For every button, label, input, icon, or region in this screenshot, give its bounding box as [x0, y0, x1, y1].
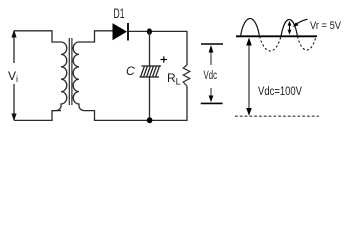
svg-text:Vdc=100V: Vdc=100V	[258, 86, 302, 98]
Vdc down arrow	[210, 88, 212, 99]
sine valley 1 dashed	[260, 36, 282, 51]
node junction bottom	[147, 117, 153, 123]
transformer core	[69, 38, 72, 105]
source Vi left rail with arrows	[13, 31, 15, 120]
resistor RL vertical leads	[186, 31, 188, 65]
svg-text:Vdc: Vdc	[204, 70, 218, 82]
wire bottom-left from source to transformer	[14, 111, 61, 121]
Vdc up arrow	[210, 47, 212, 65]
wire top-right from transformer to diode	[79, 31, 113, 42]
source Vi bottom arrowhead	[11, 114, 16, 122]
svg-text:Vr = 5V: Vr = 5V	[310, 20, 342, 32]
transformer secondary winding	[73, 42, 88, 111]
source Vi top arrowhead	[11, 30, 16, 38]
capacitor plus sign	[161, 56, 168, 62]
svg-text:C: C	[126, 64, 135, 78]
dashed zero baseline	[235, 115, 319, 117]
wire bottom-right from transformer to rail	[88, 111, 187, 121]
ripple double arrow	[288, 21, 292, 35]
Vdc bottom bar	[201, 102, 223, 104]
leader arrow to Vr label	[295, 19, 308, 25]
sine valley 2 dashed	[298, 36, 317, 50]
Vdc top bar	[201, 43, 223, 45]
wire top-left from source to transformer	[14, 31, 61, 42]
Vdc measurement vertical arrow	[248, 39, 250, 113]
waveform axis line	[236, 35, 317, 37]
sine hump 2 solid	[281, 20, 298, 37]
transformer primary winding	[52, 42, 67, 111]
sine hump 1 solid	[241, 19, 260, 37]
node junction top	[147, 28, 152, 34]
resistor RL zigzag	[183, 65, 190, 86]
capacitor C wires	[149, 32, 151, 66]
wire from diode cathode to right corner	[129, 30, 187, 32]
diode D1	[113, 23, 128, 41]
capacitor C hatched body	[140, 66, 162, 77]
svg-text:D1: D1	[114, 5, 125, 21]
